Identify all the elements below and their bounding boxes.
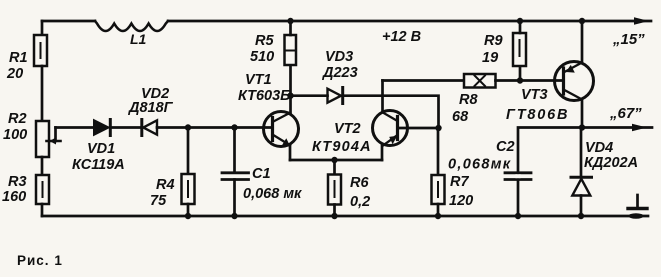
svg-text:C1: C1 bbox=[252, 166, 271, 182]
node C2 bottom junction bbox=[515, 213, 521, 219]
node VT2 base / R7 junction bbox=[435, 125, 441, 131]
wire R9 top lead bbox=[519, 21, 522, 33]
label C2 bbox=[448, 139, 515, 173]
node ground blob on bottom rail bbox=[629, 213, 644, 219]
label VT2 bbox=[312, 121, 372, 155]
svg-text:VT1: VT1 bbox=[245, 72, 272, 88]
wire emitter bus VT1-VT2 bbox=[290, 159, 382, 162]
wire VT1 emitter down bbox=[289, 145, 292, 160]
svg-text:VD1: VD1 bbox=[87, 141, 115, 157]
wire bottom rail bbox=[42, 215, 648, 218]
svg-text:0,2: 0,2 bbox=[350, 194, 370, 210]
resistor R9 bbox=[513, 33, 526, 66]
label VD4 bbox=[584, 140, 638, 171]
diode VD2 bbox=[142, 120, 157, 136]
svg-text:„15”: „15” bbox=[612, 31, 645, 48]
svg-text:Рис. 1: Рис. 1 bbox=[17, 253, 63, 268]
svg-text:510: 510 bbox=[250, 49, 274, 65]
svg-text:КТ904А: КТ904А bbox=[312, 139, 372, 155]
wire R6 to bottom rail bbox=[333, 205, 336, 217]
node R4 bottom junction bbox=[185, 213, 191, 219]
label VT1 bbox=[238, 72, 290, 104]
svg-text:R9: R9 bbox=[484, 33, 503, 49]
svg-text:КТ603Б: КТ603Б bbox=[238, 88, 290, 104]
wire R3 to bottom rail bbox=[41, 204, 44, 216]
node VT3 top on +12V rail bbox=[579, 18, 585, 24]
svg-text:КС119А: КС119А bbox=[72, 157, 125, 173]
svg-text:R8: R8 bbox=[459, 92, 478, 108]
wire VT2 collector up bbox=[381, 81, 384, 113]
svg-text:R3: R3 bbox=[8, 174, 27, 190]
label R6 bbox=[350, 175, 370, 210]
label VD1 bbox=[72, 141, 125, 173]
resistor R1 bbox=[34, 35, 47, 66]
svg-text:0,068 мк: 0,068 мк bbox=[243, 186, 302, 202]
label R9 bbox=[482, 33, 503, 66]
resistor R7 bbox=[432, 175, 445, 204]
label VD2 bbox=[127, 86, 174, 116]
label R3 bbox=[2, 174, 27, 205]
wire left rail bbox=[41, 21, 44, 35]
wire VD4 top lead bbox=[580, 128, 583, 178]
wire R4 lead bbox=[187, 128, 190, 175]
wire VT2 base lead bbox=[398, 127, 439, 130]
wire C1 bottom lead bbox=[233, 180, 236, 217]
svg-text:R1: R1 bbox=[9, 50, 28, 66]
node VD2/R4 junction bbox=[185, 124, 191, 130]
wire top rail right segment bbox=[168, 20, 651, 23]
svg-text:КД202А: КД202А bbox=[584, 155, 638, 171]
label R8 bbox=[452, 92, 478, 125]
svg-text:R2: R2 bbox=[8, 111, 27, 127]
diode VD4 bbox=[571, 177, 592, 195]
wire R7 top lead bbox=[437, 128, 440, 175]
svg-text:75: 75 bbox=[150, 193, 167, 209]
node C1 bottom junction bbox=[231, 213, 237, 219]
wire C1 top lead bbox=[233, 128, 236, 173]
label R5 bbox=[250, 33, 274, 65]
svg-text:C2: C2 bbox=[496, 139, 515, 155]
svg-text:„67”: „67” bbox=[609, 105, 642, 122]
node R6 bottom junction bbox=[331, 213, 337, 219]
label R2 bbox=[3, 111, 27, 143]
resistor R3 bbox=[36, 175, 49, 204]
wire wiper to VD1 bbox=[56, 126, 95, 129]
white gap inside C2 lead bbox=[516, 174, 521, 178]
wire R9 bottom lead bbox=[519, 66, 522, 81]
svg-text:R5: R5 bbox=[255, 33, 274, 49]
wire VD4 bottom lead bbox=[580, 196, 583, 217]
svg-text:Д223: Д223 bbox=[321, 65, 358, 81]
wire R7 to bottom rail bbox=[437, 204, 440, 216]
wire R6 top lead bbox=[333, 160, 336, 175]
wire "67" output line bbox=[518, 128, 652, 217]
svg-text:0,068мк: 0,068мк bbox=[448, 157, 511, 173]
resistor R4 bbox=[182, 174, 195, 204]
svg-text:R7: R7 bbox=[450, 174, 469, 190]
wire VT3 emitter up to rail bbox=[581, 21, 584, 63]
node C1 top junction bbox=[231, 124, 237, 130]
label VD3 bbox=[321, 49, 358, 81]
wire VT3 collector down bbox=[581, 100, 584, 128]
svg-text:120: 120 bbox=[449, 193, 473, 209]
resistor R5 bbox=[285, 35, 297, 65]
node R5 top on +12V rail bbox=[287, 18, 293, 24]
wire VD3 anode lead bbox=[291, 94, 328, 97]
svg-text:68: 68 bbox=[452, 109, 469, 125]
wire top rail left segment bbox=[42, 20, 95, 23]
node R6 top junction bbox=[331, 157, 337, 163]
label C1 bbox=[243, 166, 302, 202]
svg-text:VT2: VT2 bbox=[334, 121, 361, 137]
arrow on "67" line bbox=[632, 124, 647, 132]
transistor VT3 bbox=[555, 62, 594, 101]
wire R2 to R3 bbox=[41, 157, 44, 175]
transistor VT1 bbox=[264, 112, 299, 147]
svg-text:R4: R4 bbox=[156, 177, 175, 193]
wire VD3 cathode to VT2 base node bbox=[343, 96, 439, 128]
svg-text:R6: R6 bbox=[350, 175, 369, 191]
label R1 bbox=[6, 50, 28, 82]
svg-text:Д818Г: Д818Г bbox=[127, 100, 174, 116]
node VT1 collector / R5 / VD3 bbox=[287, 93, 293, 99]
resistor R6 bbox=[328, 175, 341, 205]
wiper of R2 bbox=[54, 128, 57, 142]
wire R8 to base node bbox=[496, 79, 564, 82]
resistor R8 bbox=[464, 74, 496, 88]
svg-text:VD3: VD3 bbox=[325, 49, 353, 65]
svg-text:L1: L1 bbox=[130, 31, 147, 47]
wire VT2 emitter down bbox=[381, 146, 384, 161]
label R4 bbox=[150, 177, 175, 209]
svg-text:19: 19 bbox=[482, 50, 498, 66]
diode VD3 bbox=[328, 88, 343, 104]
svg-text:20: 20 bbox=[6, 66, 23, 82]
svg-text:ГТ806В: ГТ806В bbox=[506, 107, 569, 123]
svg-text:160: 160 bbox=[2, 189, 26, 205]
resistor R2 (variable) bbox=[36, 121, 49, 157]
wire R5 bottom lead bbox=[289, 65, 292, 96]
svg-text:VD4: VD4 bbox=[585, 140, 613, 156]
wire VD1 to VD2 bbox=[110, 126, 141, 129]
wire R4 to bottom rail bbox=[187, 204, 190, 216]
wire R5 top lead bbox=[289, 21, 292, 35]
arrow on +12V rail to "15" bbox=[634, 17, 649, 25]
svg-text:VT3: VT3 bbox=[521, 87, 548, 103]
capacitor C1 bbox=[222, 173, 249, 180]
ground symbol bbox=[628, 195, 647, 209]
node VD4 bottom junction bbox=[578, 213, 584, 219]
label VT3 bbox=[506, 87, 569, 123]
diode VD1 bbox=[94, 120, 110, 136]
node R8/R9/VT3 base bbox=[517, 77, 523, 83]
svg-text:100: 100 bbox=[3, 127, 27, 143]
wire VT1 collector up to node bbox=[289, 96, 292, 113]
node VT3 collector on "67" line bbox=[579, 124, 585, 130]
node R9 top on +12V rail bbox=[517, 18, 523, 24]
wire R1 to R2 bbox=[41, 66, 44, 121]
node R7 bottom junction bbox=[435, 213, 441, 219]
wire VD2 to R4 node and on to VT1 base bbox=[157, 126, 273, 129]
svg-text:+12 В: +12 В bbox=[382, 29, 421, 45]
wire collector line to R8 bbox=[383, 79, 465, 82]
label R7 bbox=[449, 174, 473, 209]
capacitor C2 bbox=[505, 173, 531, 180]
inductor L1 bbox=[95, 21, 168, 31]
transistor VT2 bbox=[373, 111, 408, 146]
